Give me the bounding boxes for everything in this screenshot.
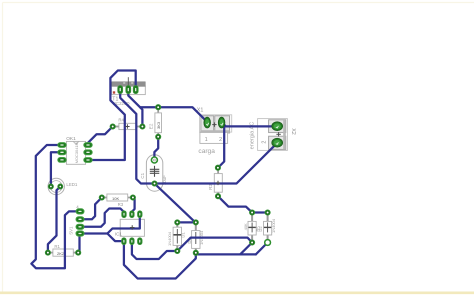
svg-text:R3: R3 [118, 202, 124, 207]
svg-text:2: 2 [262, 141, 268, 144]
X1 pad 1 [204, 117, 211, 128]
OK1 pad 3 (bottom-left) [58, 158, 66, 163]
OK1 pad 5 (mid-right) [84, 150, 92, 155]
R5 pad bottom [250, 240, 255, 245]
LED1 pad left [48, 184, 53, 189]
X2 pad 2 [272, 138, 283, 147]
wire IC1 bottom-left to D3 bottom (U route) [124, 241, 196, 278]
wire D1 bottom to R5 bottom (upper rail) [177, 238, 252, 251]
wire C1 bottom to D3 top [155, 184, 196, 223]
R3 pad right [130, 195, 135, 200]
R2 pad top [215, 165, 220, 170]
node R4 origin [125, 126, 129, 128]
wire R4 left to OK1 pin6 [88, 127, 113, 146]
svg-text:1N4004: 1N4004 [167, 231, 172, 246]
header SV1 labels [69, 205, 80, 235]
wire R3 right to IC1 top-mid [132, 198, 135, 215]
R5 pad top [250, 210, 255, 215]
resistor R5 body [243, 213, 261, 243]
OK1 pads [58, 143, 92, 163]
wire D2 bottom to rail [256, 243, 268, 255]
IC1 pads [122, 211, 142, 245]
T1 pad 1 [118, 86, 123, 94]
IC1 pad bottom-left [122, 238, 126, 245]
optocoupler OK1 body [66, 136, 85, 164]
svg-text:MOC3041M: MOC3041M [74, 142, 79, 163]
node X2 origin [276, 133, 280, 135]
diode D3 body [187, 223, 204, 253]
wire SV1 pad2 to R3 left [80, 198, 102, 220]
wire C1 bottom to X2 pad2 [155, 143, 278, 184]
D2 pad bottom (via ring) [265, 240, 271, 246]
wire SV1 pad4 to IC1 top-right [80, 215, 140, 234]
R4 pad right [140, 124, 145, 129]
svg-text:R1: R1 [54, 244, 60, 249]
X2 pad 1 [272, 122, 283, 131]
node IC1 origin [130, 227, 135, 229]
resistor R2 body [208, 168, 222, 197]
svg-text:carga: carga [198, 148, 215, 155]
IC1 pad bottom-right [138, 238, 142, 245]
svg-text:R4: R4 [118, 118, 124, 123]
D3 pad bottom [193, 250, 198, 255]
svg-text:D1: D1 [181, 232, 186, 238]
OK1 pad 4 (bottom-right) [84, 158, 92, 163]
C1 pad - (bottom) [152, 181, 157, 186]
wire R2 bottom to R5 top [218, 196, 252, 212]
frame bottom line [0, 291, 474, 294]
T1 pads [118, 86, 138, 94]
R4 pad left [110, 124, 115, 129]
IC1 pad bottom-mid [130, 238, 134, 245]
resistor E2 body [149, 107, 162, 137]
wire E2 bottom to C1 top [154, 137, 158, 160]
LED1 outline [48, 178, 78, 194]
D1 pad bottom [175, 248, 180, 253]
wire X1 pad2 to R2 top [218, 122, 224, 168]
C1 pad + (top) [151, 157, 157, 163]
wire R5 top to D2 top [252, 211, 268, 213]
svg-text:E2: E2 [149, 123, 154, 129]
R1 pad left [45, 250, 50, 255]
wire X1 pad2 to X2 pad1 [222, 122, 278, 126]
svg-text:40K: 40K [243, 223, 248, 230]
svg-text:X2: X2 [290, 128, 296, 135]
SV1 pad 4 (bottom) [76, 231, 84, 236]
wire IC1 bottom-mid to D1 bottom [132, 241, 177, 259]
svg-text:C1: C1 [140, 172, 145, 178]
OK1 pad 1 (top-left) [58, 143, 66, 148]
diode D1 body [167, 222, 185, 251]
X1 pad 2 [218, 117, 225, 128]
triac T1 body [112, 77, 146, 106]
OK1 pad 2 (mid-left) [58, 150, 66, 155]
connector X2 pads [272, 122, 283, 147]
IC1 pad top-mid [130, 211, 134, 218]
svg-text:2K2: 2K2 [57, 251, 65, 256]
R1 pad right [76, 250, 81, 255]
svg-text:10K: 10K [112, 196, 119, 201]
wire T1 pad3 to OK1 pin4 [88, 71, 136, 161]
IC1 pad top-right [138, 211, 142, 218]
connector X1 body [197, 107, 232, 154]
wire junction to IC1 bottom-left [107, 234, 124, 242]
IC1 pad top-left [122, 211, 126, 218]
SV1 pad 2 [76, 217, 84, 222]
R3 pad left [99, 195, 104, 200]
svg-text:LED1: LED1 [66, 182, 78, 187]
OK1 pad 6 (top-right) [84, 143, 92, 148]
connector X2 body [250, 119, 297, 151]
svg-text:D2: D2 [258, 226, 263, 232]
SV1 pad 1 (top, marked 4) [76, 209, 84, 214]
resistor R3 body [102, 194, 133, 207]
svg-text:SV1: SV1 [69, 226, 74, 235]
resistor R4 body [113, 118, 143, 130]
connector X1 pads [204, 117, 225, 128]
svg-text:3K3: 3K3 [156, 121, 161, 129]
wire D3 bottom to R5/D2 bottoms (lower rail) [196, 253, 256, 255]
svg-text:IC1: IC1 [115, 232, 123, 237]
SV1 pad 3 [76, 224, 84, 229]
SV1 pads [76, 209, 84, 236]
D2 pad top [265, 210, 270, 215]
R2 pad bottom [215, 194, 220, 199]
node R2 origin [216, 182, 220, 184]
svg-text:2: 2 [219, 137, 222, 143]
diode D2 body [258, 213, 276, 243]
LED1 pad right [58, 184, 63, 189]
D1 pad top [175, 220, 180, 225]
wire SV1 pad4 to R1 right [78, 234, 79, 253]
wire branch to X1 pad1 [140, 107, 207, 122]
wire SV1 pad3 to IC1 pin top-left [80, 209, 124, 227]
wire T1 pad1 to C1 bottom [120, 89, 154, 184]
svg-text:OK1: OK1 [66, 136, 76, 142]
IC1 body [115, 219, 145, 236]
round pads [45, 105, 270, 256]
D3 pad top [193, 220, 198, 225]
wire T1 pad2 to R4 right [128, 89, 142, 127]
svg-text:1: 1 [205, 137, 208, 143]
E2 pad top / node junction [156, 105, 161, 110]
E2 pad bottom [156, 134, 161, 139]
wire LED1 right to R1 left [48, 187, 60, 253]
T1 pad 2 [126, 86, 131, 94]
capacitor C1 body [140, 155, 167, 191]
node X1 origin [212, 124, 216, 126]
wire OK1 pin2 to LED1 left [51, 152, 62, 186]
resistor R1 body [48, 244, 78, 256]
svg-text:1N4004: 1N4004 [271, 218, 276, 233]
wire D1 top to D3 top [177, 221, 196, 223]
wire OK1 pin1 to SV1 pad1 (left loop) [31, 145, 80, 268]
wire R5 bottom to rail [240, 243, 252, 255]
T1 pad 3 [133, 86, 138, 94]
